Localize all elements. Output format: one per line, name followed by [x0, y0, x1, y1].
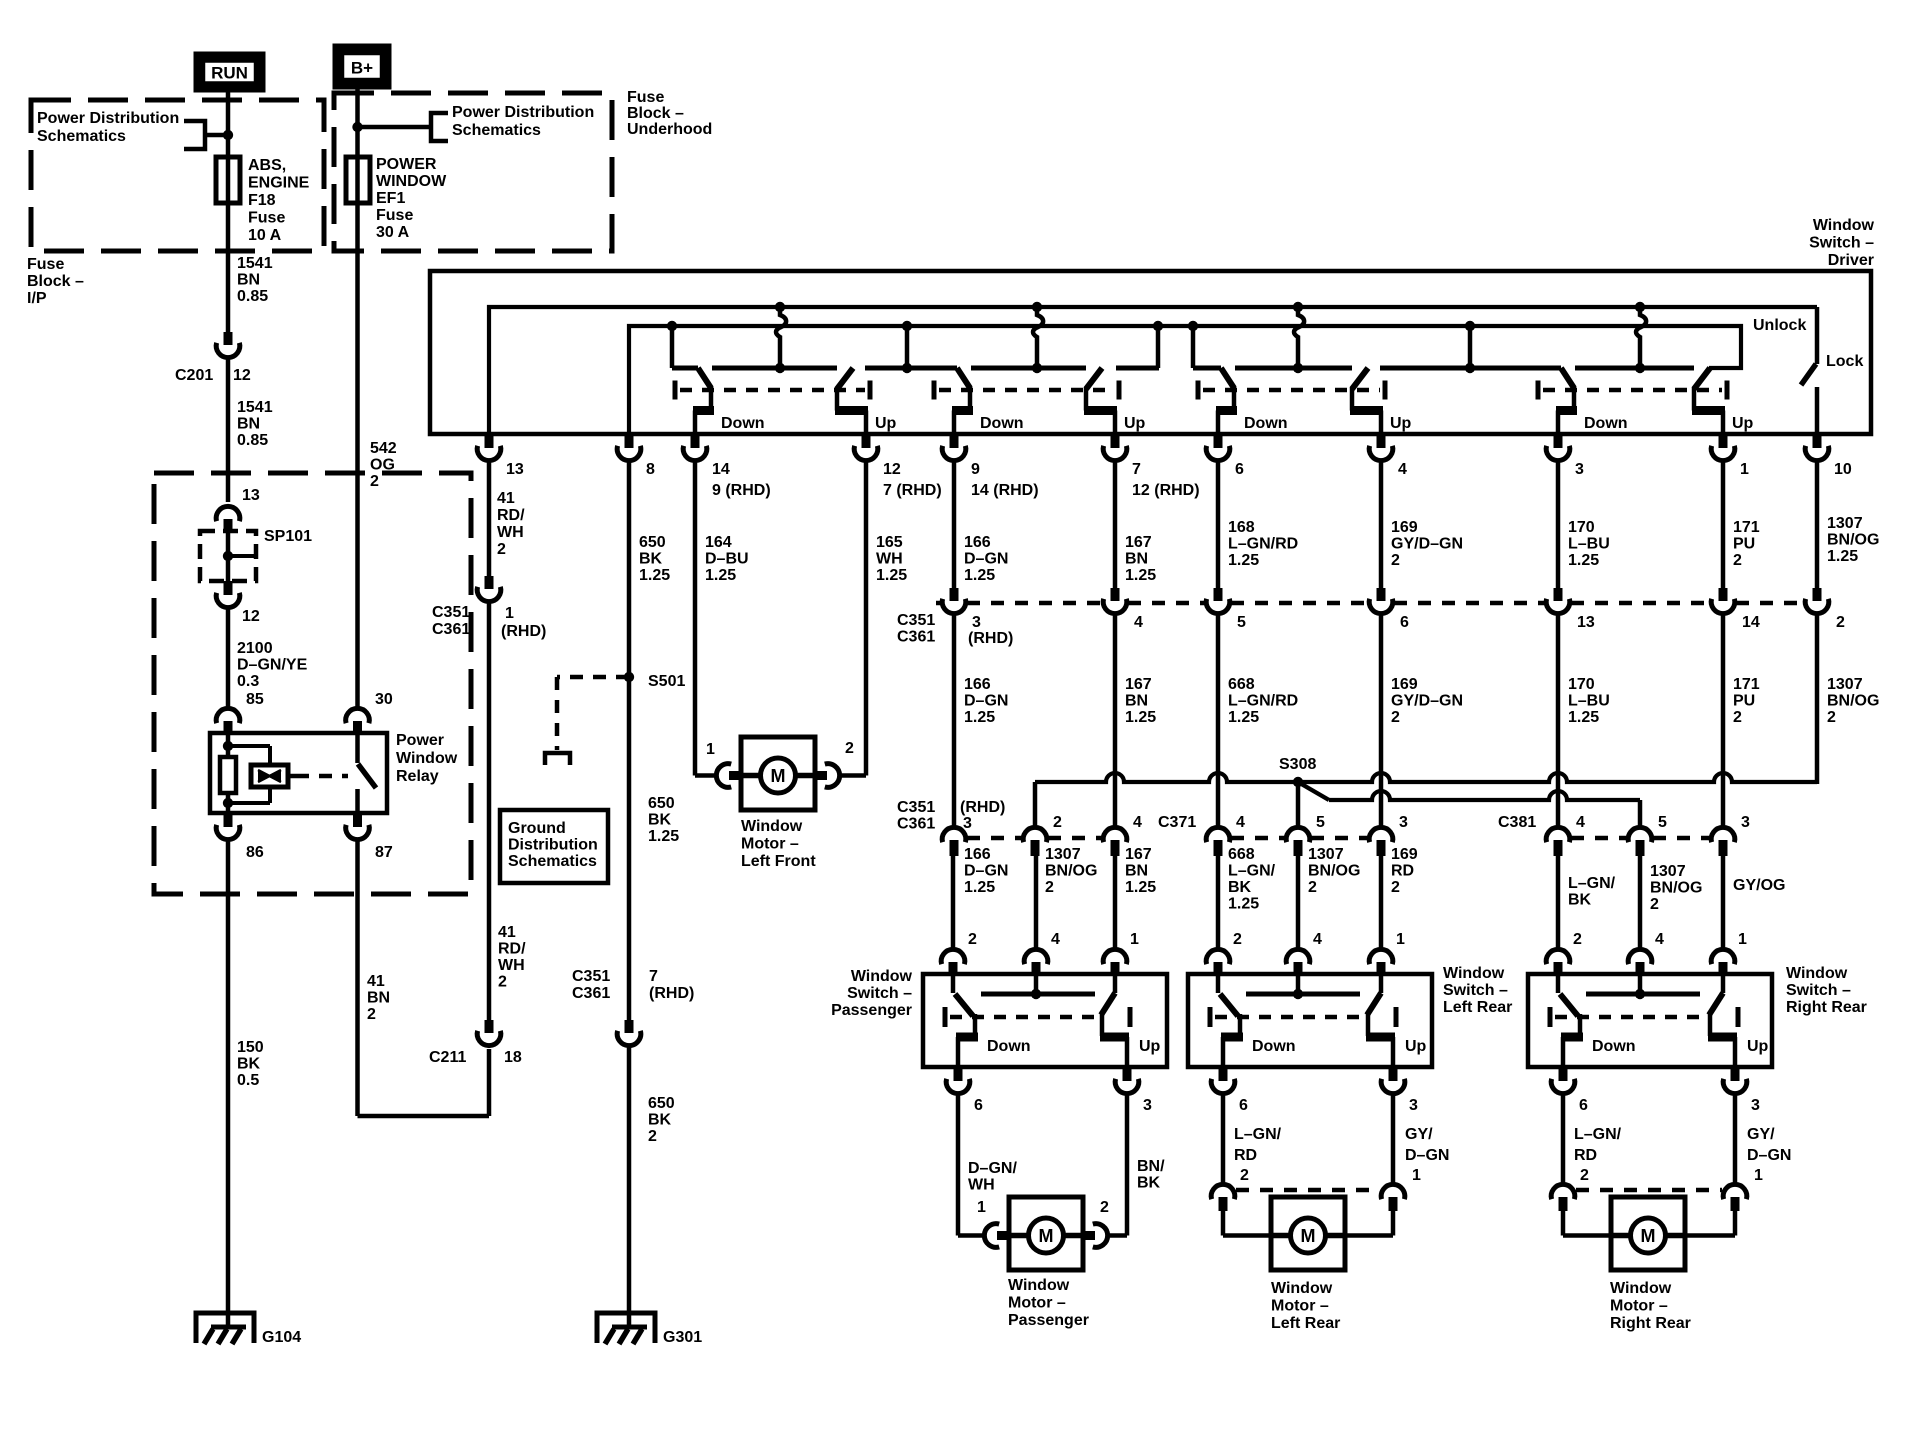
connector right rear switch pin 6 [1559, 1067, 1568, 1081]
svg-text:1.25: 1.25 [639, 567, 670, 584]
connector C351 C361 pin 3 [950, 588, 959, 601]
svg-text:169: 169 [1391, 676, 1418, 693]
rocker linkage dashed (pair 3) [1196, 381, 1201, 400]
svg-text:1: 1 [1396, 931, 1405, 948]
svg-text:S501: S501 [648, 673, 685, 690]
svg-text:5: 5 [1658, 814, 1667, 831]
splice pack SP101 dashed box [200, 531, 256, 581]
svg-text:BN: BN [1125, 693, 1148, 710]
svg-text:9 (RHD): 9 (RHD) [712, 482, 771, 499]
svg-text:G104: G104 [262, 1329, 301, 1346]
svg-text:OG: OG [370, 457, 395, 474]
svg-text:2: 2 [1827, 709, 1836, 726]
svg-text:2: 2 [1391, 552, 1400, 569]
battery-bus feed with crossover jog (pair 2) [1032, 302, 1042, 312]
svg-text:170: 170 [1568, 676, 1595, 693]
svg-text:Window: Window [1786, 965, 1848, 982]
relay switch blade [358, 764, 376, 788]
wire row1 to row2 at 1218 [1216, 615, 1221, 826]
switch Up output lead (pair 4) [1692, 387, 1697, 411]
svg-text:2: 2 [1391, 709, 1400, 726]
wire into left rear switch pin 1 [1379, 856, 1384, 948]
left rear rocker linkage dashed [1208, 1007, 1213, 1027]
ground distribution schematics box [500, 810, 608, 883]
svg-text:166: 166 [964, 846, 991, 863]
svg-text:650: 650 [648, 795, 675, 812]
wire into passenger switch pin 4 [1034, 856, 1039, 948]
svg-text:2: 2 [1733, 552, 1742, 569]
left rear switch feed bar [1246, 992, 1360, 997]
svg-text:30 A: 30 A [376, 224, 410, 241]
svg-text:168: 168 [1228, 519, 1255, 536]
switch blade Up (pair 3) [1352, 368, 1368, 389]
wire L-GN/RD right rear pin 6 to connector [1561, 1095, 1566, 1183]
svg-text:Down: Down [987, 1038, 1031, 1055]
svg-text:1.25: 1.25 [964, 709, 995, 726]
switch blade Up (pair 2) [1086, 368, 1102, 389]
svg-text:Down: Down [1584, 415, 1628, 432]
passenger switch Down output lead [973, 1014, 978, 1036]
svg-text:6: 6 [1235, 461, 1244, 478]
svg-text:1.25: 1.25 [705, 567, 736, 584]
svg-text:Unlock: Unlock [1753, 317, 1806, 334]
connector driver switch pin 1 [1719, 434, 1728, 448]
connector driver switch pin 13 [485, 434, 494, 448]
svg-text:1: 1 [1738, 931, 1747, 948]
passenger switch Up output lead [1100, 1014, 1105, 1036]
svg-text:BK: BK [1568, 892, 1592, 909]
window motor right rear [1611, 1197, 1685, 1270]
svg-text:Window: Window [1443, 965, 1505, 982]
svg-text:Motor –: Motor – [741, 836, 799, 853]
junction dot B+ wire to schematics bracket [352, 122, 362, 132]
svg-text:Ground: Ground [508, 820, 566, 837]
svg-text:L–GN/RD: L–GN/RD [1228, 693, 1298, 710]
svg-text:1.25: 1.25 [964, 567, 995, 584]
connector driver switch pin 14 [691, 434, 700, 448]
svg-text:WH: WH [968, 1177, 995, 1194]
ground-bus contact feed at x=1158 [1153, 321, 1163, 331]
right rear switch Down output lead [1578, 1014, 1583, 1036]
svg-text:GY/OG: GY/OG [1733, 877, 1785, 894]
svg-text:2100: 2100 [237, 640, 273, 657]
svg-text:1541: 1541 [237, 399, 273, 416]
dashed wire S501 to ground distribution [557, 675, 629, 680]
svg-text:0.3: 0.3 [237, 673, 259, 690]
svg-text:1: 1 [1754, 1167, 1763, 1184]
connector right rear switch pin 3 [1731, 1067, 1740, 1081]
wire 650 BK S501 to C351 pin 7 [627, 677, 632, 1020]
wire into C351 row1 at 1115 [1113, 462, 1118, 588]
wire 2100 D-GN/YE SP101 to relay 85 [226, 609, 231, 707]
switch Down output lead (pair 1) [709, 386, 714, 411]
svg-text:41: 41 [367, 973, 385, 990]
svg-text:RD: RD [1391, 863, 1414, 880]
wire row1 to row2 at 1381 [1379, 615, 1384, 826]
splice bus line 1307 BN/OG (to pin 10) [1035, 773, 1817, 782]
lockout switch feed [1815, 307, 1820, 364]
svg-text:4: 4 [1655, 931, 1664, 948]
switch Down output lead (pair 3) [1232, 386, 1237, 411]
connector C211 pin 18 [485, 1020, 494, 1033]
switch Up output lead (pair 3) [1350, 387, 1355, 411]
svg-text:6: 6 [1239, 1097, 1248, 1114]
svg-text:C361: C361 [432, 621, 470, 638]
connector right rear switch pin 1 [1711, 949, 1735, 964]
svg-text:1: 1 [505, 605, 514, 622]
svg-text:87: 87 [375, 844, 393, 861]
svg-text:2: 2 [1836, 614, 1845, 631]
wire drop to row2 x=1035 [1033, 782, 1038, 826]
passenger switch Down blade [955, 994, 973, 1016]
ground G301 [597, 1313, 655, 1343]
svg-text:Block –: Block – [627, 105, 684, 122]
svg-text:Distribution: Distribution [508, 837, 598, 854]
svg-text:5: 5 [1237, 614, 1246, 631]
connector left rear switch pin 1 [1369, 949, 1393, 964]
svg-text:RD: RD [1574, 1147, 1597, 1164]
svg-text:D–GN/: D–GN/ [968, 1160, 1017, 1177]
right rear switch pin1 lead [1721, 974, 1726, 993]
window switch box passenger [923, 974, 1167, 1067]
wire row1 to row2 at 954 [952, 615, 957, 826]
svg-text:7 (RHD): 7 (RHD) [883, 482, 942, 499]
svg-text:BN/: BN/ [1137, 1158, 1165, 1175]
svg-text:BK: BK [639, 551, 663, 568]
svg-text:Window: Window [1813, 217, 1875, 234]
relay diode branch wires [228, 744, 270, 748]
switch Up output lead (pair 2) [1084, 387, 1089, 411]
connector C351 C361 pin 14 [1719, 588, 1728, 601]
svg-text:C211: C211 [429, 1049, 466, 1066]
connector C201 pin 12 [224, 332, 233, 345]
svg-text:2: 2 [1573, 931, 1582, 948]
svg-text:9: 9 [971, 461, 980, 478]
svg-text:4: 4 [1133, 814, 1142, 831]
connector C351 C361 pin 1 [485, 576, 494, 589]
svg-text:2: 2 [1240, 1167, 1249, 1184]
svg-text:GY/D–GN: GY/D–GN [1391, 536, 1463, 553]
svg-text:B+: B+ [351, 59, 373, 78]
svg-text:C361: C361 [897, 816, 935, 833]
svg-text:1.25: 1.25 [1827, 548, 1858, 565]
svg-text:WH: WH [876, 551, 903, 568]
svg-text:Motor –: Motor – [1271, 1298, 1329, 1315]
wire 164 D-BU pin 14 to motor [693, 462, 698, 776]
svg-text:BN: BN [1125, 551, 1148, 568]
connector passenger switch pin 6 [954, 1067, 963, 1081]
svg-text:Down: Down [1252, 1038, 1296, 1055]
wire 41 BN relay 87 to C211 leg [355, 841, 360, 1116]
svg-text:Left Rear: Left Rear [1271, 1315, 1340, 1332]
window switch box left rear [1188, 974, 1432, 1067]
svg-text:Switch –: Switch – [847, 985, 912, 1002]
svg-text:Up: Up [1405, 1038, 1427, 1055]
svg-text:F18: F18 [248, 192, 276, 209]
ground-bus contact feed at x=672 [667, 321, 677, 331]
passenger switch feed bar [981, 992, 1095, 997]
svg-text:D–GN: D–GN [964, 551, 1008, 568]
svg-text:7: 7 [649, 968, 658, 985]
svg-text:Right Rear: Right Rear [1786, 999, 1867, 1016]
svg-text:Block –: Block – [27, 273, 84, 290]
dashed link C351 C361 row 1 [936, 601, 941, 606]
rocker linkage dashed (pair 2) [932, 381, 937, 400]
svg-text:171: 171 [1733, 676, 1760, 693]
svg-text:1: 1 [706, 741, 715, 758]
connector row2 pin 5 at x=1640 [1628, 827, 1652, 842]
relay switch fixed lead [355, 733, 360, 763]
wire into right rear switch pin 2 [1556, 856, 1561, 948]
off-page bracket ground distribution [545, 753, 570, 765]
svg-text:Window: Window [396, 750, 458, 767]
svg-text:Window: Window [851, 968, 913, 985]
svg-text:SP101: SP101 [264, 528, 312, 545]
wire L-GN/RD left rear pin 6 to connector [1221, 1095, 1226, 1183]
svg-text:1.25: 1.25 [964, 879, 995, 896]
svg-text:D–BU: D–BU [705, 551, 749, 568]
wire GY/D-GN right rear pin 3 to connector [1733, 1095, 1738, 1183]
svg-text:Up: Up [1390, 415, 1412, 432]
svg-text:2: 2 [1580, 1167, 1589, 1184]
svg-text:150: 150 [237, 1039, 264, 1056]
ground G104 [196, 1313, 254, 1343]
wire into C351 row1 at 1723 [1721, 462, 1726, 588]
svg-text:D–GN: D–GN [964, 693, 1008, 710]
connector left rear pin 1 [1381, 1184, 1405, 1199]
wire into left rear switch pin 2 [1216, 856, 1221, 948]
svg-text:L–GN/: L–GN/ [1228, 863, 1276, 880]
svg-text:L–BU: L–BU [1568, 693, 1610, 710]
wire into C351 row1 at 1817 [1815, 462, 1820, 588]
relay switch output lead [355, 789, 360, 813]
svg-text:1307: 1307 [1827, 676, 1863, 693]
svg-text:0.85: 0.85 [237, 432, 268, 449]
svg-text:0.5: 0.5 [237, 1072, 259, 1089]
ground-bus contact feed at x=1193 [1188, 321, 1198, 331]
svg-text:S308: S308 [1279, 756, 1316, 773]
left rear switch Up output lead [1366, 1014, 1371, 1036]
svg-text:Down: Down [980, 415, 1024, 432]
connector left rear switch pin 4 [1286, 949, 1310, 964]
switch blade Down (pair 2) [957, 368, 970, 388]
svg-text:2: 2 [845, 740, 854, 757]
svg-text:12 (RHD): 12 (RHD) [1132, 482, 1200, 499]
svg-text:2: 2 [1308, 879, 1317, 896]
power node RUN [194, 52, 265, 92]
right rear switch Down blade [1560, 994, 1578, 1016]
svg-text:Fuse: Fuse [27, 256, 64, 273]
svg-text:Switch –: Switch – [1786, 982, 1851, 999]
switch blade Up (pair 4) [1694, 368, 1710, 389]
svg-text:167: 167 [1125, 676, 1152, 693]
svg-text:0.85: 0.85 [237, 288, 268, 305]
svg-text:2: 2 [968, 931, 977, 948]
svg-text:6: 6 [1400, 614, 1409, 631]
svg-text:RUN: RUN [211, 64, 248, 83]
svg-text:1: 1 [1130, 931, 1139, 948]
svg-text:Down: Down [1592, 1038, 1636, 1055]
svg-text:GY/: GY/ [1405, 1126, 1433, 1143]
connector right rear pin 1 [1723, 1184, 1747, 1199]
connector C351 C361 pin 7 [625, 1020, 634, 1033]
connector row2 pin 3 at x=1723 [1711, 827, 1735, 842]
svg-text:4: 4 [1134, 614, 1143, 631]
splice branch line to C381 pin 5 [1298, 782, 1329, 800]
svg-text:650: 650 [648, 1095, 675, 1112]
connector left rear switch pin 6 [1219, 1067, 1228, 1081]
junction dot relay coil lower [223, 798, 233, 808]
svg-text:169: 169 [1391, 519, 1418, 536]
connector row2 pin 3 at x=954 [942, 827, 966, 842]
connector relay pin 86 [224, 813, 233, 827]
connector C351 C361 pin 2 [1813, 588, 1822, 601]
connector left rear pin 2 [1211, 1184, 1235, 1199]
svg-text:BK: BK [237, 1056, 261, 1073]
svg-text:2: 2 [1045, 879, 1054, 896]
svg-text:Up: Up [1124, 415, 1146, 432]
svg-text:30: 30 [375, 691, 393, 708]
svg-text:6: 6 [974, 1097, 983, 1114]
svg-text:166: 166 [964, 534, 991, 551]
relay coil lead upper [226, 733, 231, 757]
svg-text:WH: WH [498, 957, 525, 974]
svg-text:3: 3 [1575, 461, 1584, 478]
fuse EF1 POWER WINDOW 30A [346, 157, 370, 203]
lockout switch output lead to pin 10 [1815, 387, 1820, 434]
svg-text:167: 167 [1125, 534, 1152, 551]
connector left rear switch pin 3 [1389, 1067, 1398, 1081]
svg-text:RD/: RD/ [498, 941, 526, 958]
splice S501 [624, 672, 634, 682]
svg-text:1.25: 1.25 [1125, 879, 1156, 896]
svg-text:(RHD): (RHD) [501, 623, 546, 640]
svg-text:1: 1 [1740, 461, 1749, 478]
connector row2 pin 3 at x=1381 [1369, 827, 1393, 842]
svg-text:3: 3 [1143, 1097, 1152, 1114]
switch blade Up (pair 1) [837, 368, 853, 389]
connector driver switch pin 8 [625, 434, 634, 448]
svg-text:C381: C381 [1498, 814, 1536, 831]
power node B+ [333, 44, 391, 89]
battery-bus feed with crossover jog (pair 1) [775, 302, 785, 312]
svg-text:GY/: GY/ [1747, 1126, 1775, 1143]
svg-text:BN/OG: BN/OG [1045, 863, 1097, 880]
connector relay pin 30 [346, 708, 370, 723]
svg-text:G301: G301 [663, 1329, 702, 1346]
svg-text:2: 2 [648, 1128, 657, 1145]
svg-text:3: 3 [963, 815, 972, 832]
svg-text:85: 85 [246, 691, 264, 708]
svg-text:WINDOW: WINDOW [376, 173, 447, 190]
svg-text:EF1: EF1 [376, 190, 405, 207]
wire D-GN/WH passenger pin 6 to motor [956, 1095, 961, 1236]
bus wire from pin 13 (battery feed) [489, 307, 1817, 434]
wire inside SP101 [226, 531, 231, 581]
svg-text:4: 4 [1313, 931, 1322, 948]
window motor left rear [1271, 1197, 1345, 1270]
wire into C351 row1 at 1218 [1216, 462, 1221, 588]
svg-text:(RHD): (RHD) [968, 630, 1013, 647]
svg-text:10 A: 10 A [248, 227, 282, 244]
svg-text:12: 12 [883, 461, 901, 478]
svg-text:D–GN: D–GN [1405, 1147, 1449, 1164]
svg-text:2: 2 [1391, 879, 1400, 896]
svg-text:(RHD): (RHD) [960, 799, 1005, 816]
svg-text:BN/OG: BN/OG [1308, 863, 1360, 880]
connector passenger switch pin 1 [1103, 949, 1127, 964]
connector driver switch pin 7 [1111, 434, 1120, 448]
fuse F18 ABS ENGINE 10A [216, 157, 240, 203]
svg-text:C351: C351 [897, 612, 935, 629]
switch Up output lead (pair 1) [835, 387, 840, 411]
power window relay assembly dashed box [154, 473, 471, 894]
svg-text:165: 165 [876, 534, 903, 551]
fuse block I/P dashed box [31, 100, 324, 251]
left rear switch pin1 lead [1379, 974, 1384, 993]
wire 150 BK relay 86 to G104 [226, 841, 231, 1328]
switch blade Down (pair 3) [1221, 368, 1234, 388]
switch Down output lead (pair 4) [1572, 386, 1577, 411]
svg-text:1.25: 1.25 [1125, 567, 1156, 584]
svg-text:14: 14 [712, 461, 730, 478]
svg-text:Up: Up [1732, 415, 1754, 432]
dashed link right rear door connector [1576, 1188, 1722, 1193]
svg-text:171: 171 [1733, 519, 1760, 536]
svg-text:C351: C351 [897, 799, 935, 816]
right rear switch Up output lead [1708, 1014, 1713, 1036]
svg-text:POWER: POWER [376, 156, 437, 173]
junction dot RUN wire to schematics bracket [223, 130, 233, 140]
window motor left front [741, 737, 815, 810]
svg-text:D–GN/YE: D–GN/YE [237, 657, 308, 674]
svg-text:164: 164 [705, 534, 732, 551]
off-page bracket to Power Distribution Schematics (underhood) [431, 113, 448, 141]
wire row1 to row2 at 1723 [1721, 615, 1726, 826]
wire row1 to row2 at 1558 [1556, 615, 1561, 826]
svg-text:M: M [1301, 1226, 1316, 1246]
svg-text:2: 2 [1733, 709, 1742, 726]
svg-text:668: 668 [1228, 676, 1255, 693]
connector C351 C361 pin 6 [1377, 588, 1386, 601]
svg-text:2: 2 [1053, 814, 1062, 831]
wire into right rear switch pin 4 [1638, 856, 1643, 948]
svg-text:Power: Power [396, 732, 444, 749]
left rear switch pin2 lead [1216, 974, 1221, 993]
svg-text:Left Front: Left Front [741, 853, 816, 870]
left rear switch Down blade [1220, 994, 1238, 1016]
svg-text:L–GN/: L–GN/ [1234, 1126, 1282, 1143]
svg-text:4: 4 [1398, 461, 1407, 478]
svg-text:1.25: 1.25 [1568, 709, 1599, 726]
splice S308 [1293, 777, 1303, 787]
connector relay pin 85 [216, 708, 240, 723]
svg-text:BN: BN [1125, 863, 1148, 880]
svg-text:C201: C201 [175, 367, 213, 384]
svg-text:Passenger: Passenger [831, 1002, 912, 1019]
wire 650 BK C351 to G301 [627, 1047, 632, 1328]
svg-text:D–GN: D–GN [964, 863, 1008, 880]
wire 650 BK pin 8 to S501 [627, 462, 632, 677]
svg-text:Power Distribution: Power Distribution [452, 104, 594, 121]
bus wire from pin 8 (ground feed) [629, 326, 1741, 434]
wire into right rear switch pin 1 [1721, 856, 1726, 948]
svg-text:4: 4 [1576, 814, 1585, 831]
svg-text:1307: 1307 [1308, 846, 1344, 863]
svg-text:BK: BK [648, 812, 672, 829]
svg-text:BN/OG: BN/OG [1827, 532, 1879, 549]
connector passenger switch pin 3 [1123, 1067, 1132, 1081]
